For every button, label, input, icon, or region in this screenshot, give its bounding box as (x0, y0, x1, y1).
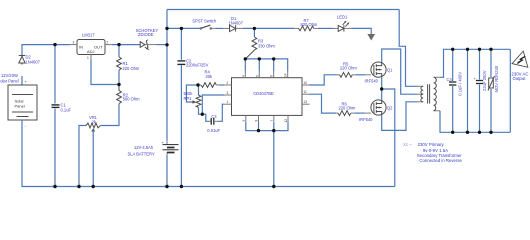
svg-text:220 Ohm: 220 Ohm (123, 66, 140, 71)
pin 2 stub (105, 44, 112, 46)
node: rail battery junction (165, 185, 168, 188)
solar panel symbol (8, 85, 37, 120)
wire R1 bottom to junction (118, 70, 120, 85)
node: C1 top junction (53, 43, 56, 46)
wire ADJ to R1/R2 junction (91, 60, 119, 85)
node: rail VR1 wiper junction (92, 185, 95, 188)
node: output top rail MOV junction (489, 48, 492, 51)
svg-text:Q2: Q2 (387, 106, 393, 111)
wire Q1 source / Q2 drain junction (381, 77, 383, 100)
svg-text:IN: IN (79, 44, 83, 49)
svg-text:X1 ~: X1 ~ (403, 142, 412, 147)
svg-text:13: 13 (304, 100, 308, 104)
resistor R7 (294, 27, 299, 29)
svg-text:Q1: Q1 (387, 68, 393, 73)
wire: main +12 vertical x167 (166, 10, 168, 141)
svg-text:14: 14 (284, 73, 288, 77)
wire R4 junction to wiper (186, 85, 198, 102)
svg-text:220 Ohm: 220 Ohm (339, 105, 356, 110)
wire D1 to R7 (243, 27, 294, 29)
resistor R4 (198, 84, 201, 86)
node: ADJ / R1 / R2 junction (117, 83, 120, 86)
svg-text:1N4007: 1N4007 (229, 20, 244, 25)
svg-text:20k: 20k (206, 74, 214, 79)
node: output bottom rail MOV junction (489, 131, 492, 134)
IC top pin stubs (245, 71, 287, 78)
svg-text:3: 3 (73, 40, 75, 44)
wire R7 to LED1 (319, 27, 334, 29)
regulator LM317 box (77, 40, 105, 55)
wire: solar panel top lead to LM317 IN horizontal (22, 45, 70, 85)
wire: switch line from x167 (167, 27, 201, 29)
node: output bottom rail C4 junction (451, 131, 454, 134)
node: R4 / RP1 junction (196, 83, 199, 86)
node: Q1 source Q2 drain junction (380, 87, 383, 90)
resistor R5 (337, 74, 340, 76)
node: rail IC ground junction (272, 185, 275, 188)
wire R2 bottom to VR1 (101, 104, 120, 126)
svg-text:LM317: LM317 (82, 33, 95, 38)
IC left pin stubs (224, 85, 232, 104)
node: switch line tap (165, 27, 168, 30)
warning triangle (512, 49, 530, 67)
wire Q1 drain up to center-tap line (382, 49, 418, 94)
capacitor C3 (209, 120, 210, 122)
pin 3 stub (70, 44, 77, 46)
capacitor C2 (180, 28, 182, 59)
capacitor C4 (452, 49, 454, 81)
svg-text:1: 1 (227, 100, 229, 104)
wire plain output column (467, 49, 469, 132)
node: rail VR1 left junction (77, 185, 80, 188)
resistor R2 (117, 85, 122, 104)
resistor R1 (117, 57, 122, 70)
wire LED to ground arrow (352, 28, 372, 34)
node: rail C1 junction (53, 185, 56, 188)
ground arrow (367, 34, 375, 41)
diode D2 (19, 55, 25, 65)
svg-text:Panel: Panel (15, 104, 25, 109)
svg-text:10: 10 (304, 81, 308, 85)
svg-text:6: 6 (270, 75, 274, 77)
SPST switch S1 (200, 25, 212, 29)
svg-text:220 Ohm: 220 Ohm (340, 66, 357, 71)
svg-text:IRF540: IRF540 (365, 79, 379, 84)
svg-text:330 Ohm: 330 Ohm (258, 44, 275, 49)
wire R6 to Q2 gate (355, 112, 365, 114)
svg-text:560 Ohm: 560 Ohm (123, 97, 140, 102)
svg-text:2: 2 (227, 81, 229, 85)
svg-text:ADJ: ADJ (87, 49, 95, 54)
svg-text:1: 1 (87, 56, 89, 60)
wire IC ground bus (246, 122, 288, 131)
secondary winding (434, 77, 437, 111)
wire R1 top (118, 45, 120, 57)
pin ADJ stub (90, 55, 92, 60)
svg-text:12: 12 (284, 119, 288, 123)
transistor Q1 (371, 62, 386, 77)
wiper arrow VR1 (91, 128, 95, 131)
wire output right side (509, 49, 511, 132)
node: schottky to battery line junction (165, 43, 168, 46)
wire junction to pin 3 (202, 95, 224, 114)
node: VDD bus pin 5 junction (258, 57, 261, 60)
svg-text:0.01uF: 0.01uF (207, 128, 220, 133)
svg-text:4: 4 (241, 75, 245, 77)
node: output top rail 22uF junction (478, 48, 481, 51)
svg-text:LED1: LED1 (337, 15, 348, 20)
svg-text:2: 2 (107, 40, 109, 44)
wire VDD rail above IC (245, 59, 287, 71)
resistor R6 (336, 112, 338, 114)
svg-text:820 Ohm: 820 Ohm (301, 22, 318, 27)
node: output top rail C4 junction (451, 48, 454, 51)
svg-text:12V-4.5Ah: 12V-4.5Ah (134, 145, 154, 150)
svg-text:3: 3 (227, 91, 229, 95)
svg-text:0.1uF: 0.1uF (61, 108, 72, 113)
svg-text:1N4007: 1N4007 (26, 60, 41, 65)
svg-text:230V Primary: 230V Primary (418, 142, 445, 147)
svg-text:12V/20W: 12V/20W (1, 73, 18, 78)
wire +12 rail down to top tap (399, 10, 417, 87)
svg-text:9: 9 (242, 120, 246, 122)
wire sources junction to ground riser (382, 89, 395, 187)
wire IC ground to rail (273, 131, 275, 187)
varistor MOV (490, 49, 492, 77)
node: ground bus pin 7 junction (272, 129, 275, 132)
node: ground bus pin 8 junction (257, 129, 260, 132)
primary winding (421, 86, 423, 102)
node: R3 top junction (253, 27, 256, 30)
wire C3 to pin 1 (218, 104, 224, 121)
capacitor C1 (52, 105, 60, 108)
wire secondary top to output rail (440, 49, 510, 77)
wire: C1 column (54, 45, 56, 104)
node: C2 top junction (180, 27, 183, 30)
transformer X1 (418, 77, 441, 111)
node: R1 / OUT junction (117, 43, 120, 46)
svg-text:8: 8 (255, 120, 259, 122)
svg-text:7: 7 (270, 120, 274, 122)
svg-text:Connected in Reverse: Connected in Reverse (419, 158, 462, 163)
svg-text:2200uF/25V: 2200uF/25V (186, 62, 209, 67)
wire pot bottom to junction (199, 108, 203, 115)
svg-text:Output: Output (513, 76, 527, 81)
svg-text:0.1uF / 400V: 0.1uF / 400V (458, 72, 463, 96)
wire: panel bottom to ground rail (22, 120, 395, 187)
svg-text:ZDIODE: ZDIODE (138, 32, 154, 37)
node: RP1 wiper / pin3 / C3 junction (201, 113, 204, 116)
wire switch to D1 (216, 27, 223, 29)
svg-text:Solar Panel: Solar Panel (0, 79, 19, 84)
top rail (167, 9, 399, 11)
node: output bottom rail 22uF junction (478, 131, 481, 134)
schottky diode D3 (141, 44, 142, 46)
svg-text:RP1: RP1 (184, 96, 193, 101)
IC right pin stubs (302, 85, 310, 104)
svg-text:IRF540: IRF540 (359, 117, 373, 122)
wire Q2 source to bottom tap (382, 102, 418, 131)
wire R5 to Q1 gate (356, 74, 365, 76)
wire secondary bottom to output bottom rail (440, 111, 510, 133)
IC CD4047BE U1 (232, 78, 303, 116)
svg-text:SPST Switch: SPST Switch (192, 19, 217, 24)
node: rail C2 junction (180, 185, 183, 188)
wire VR1 left lead down (79, 126, 86, 187)
node: VDD bus pin 6 junction (272, 57, 275, 60)
IC bottom pin stubs (246, 115, 288, 122)
wire junction to C3 (202, 114, 209, 121)
svg-text:CD4047BE: CD4047BE (253, 91, 274, 96)
wire pin 10 to R5 (310, 75, 338, 85)
LED LED1 (333, 27, 338, 29)
node: output top rail mid junction (466, 48, 469, 51)
transistor Q2 (371, 100, 386, 115)
svg-text:C3: C3 (211, 114, 217, 119)
capacitor C5 22uF (479, 49, 481, 79)
core (428, 84, 430, 103)
svg-text:OUT: OUT (94, 44, 103, 49)
potentiometer VR1 (86, 123, 101, 128)
svg-text:22uF 250V: 22uF 250V (482, 70, 487, 91)
wire pin 11 to R6 (310, 94, 337, 113)
diode D1 (223, 27, 230, 29)
wire OUT to schottky (112, 44, 141, 46)
svg-text:C4: C4 (447, 77, 453, 82)
battery BT1 (166, 140, 168, 156)
svg-text:11: 11 (304, 90, 308, 94)
wire VR1 wiper down (92, 130, 94, 187)
node: output bottom rail mid junction (466, 131, 469, 134)
node: VDD bus pin 4 junction (244, 57, 247, 60)
svg-text:SLA BATTERY: SLA BATTERY (128, 151, 155, 156)
svg-text:5: 5 (255, 75, 259, 77)
resistor R3 (253, 28, 255, 37)
potentiometer RP1 (198, 85, 200, 95)
svg-text:MOV RDN240: MOV RDN240 (494, 65, 499, 92)
